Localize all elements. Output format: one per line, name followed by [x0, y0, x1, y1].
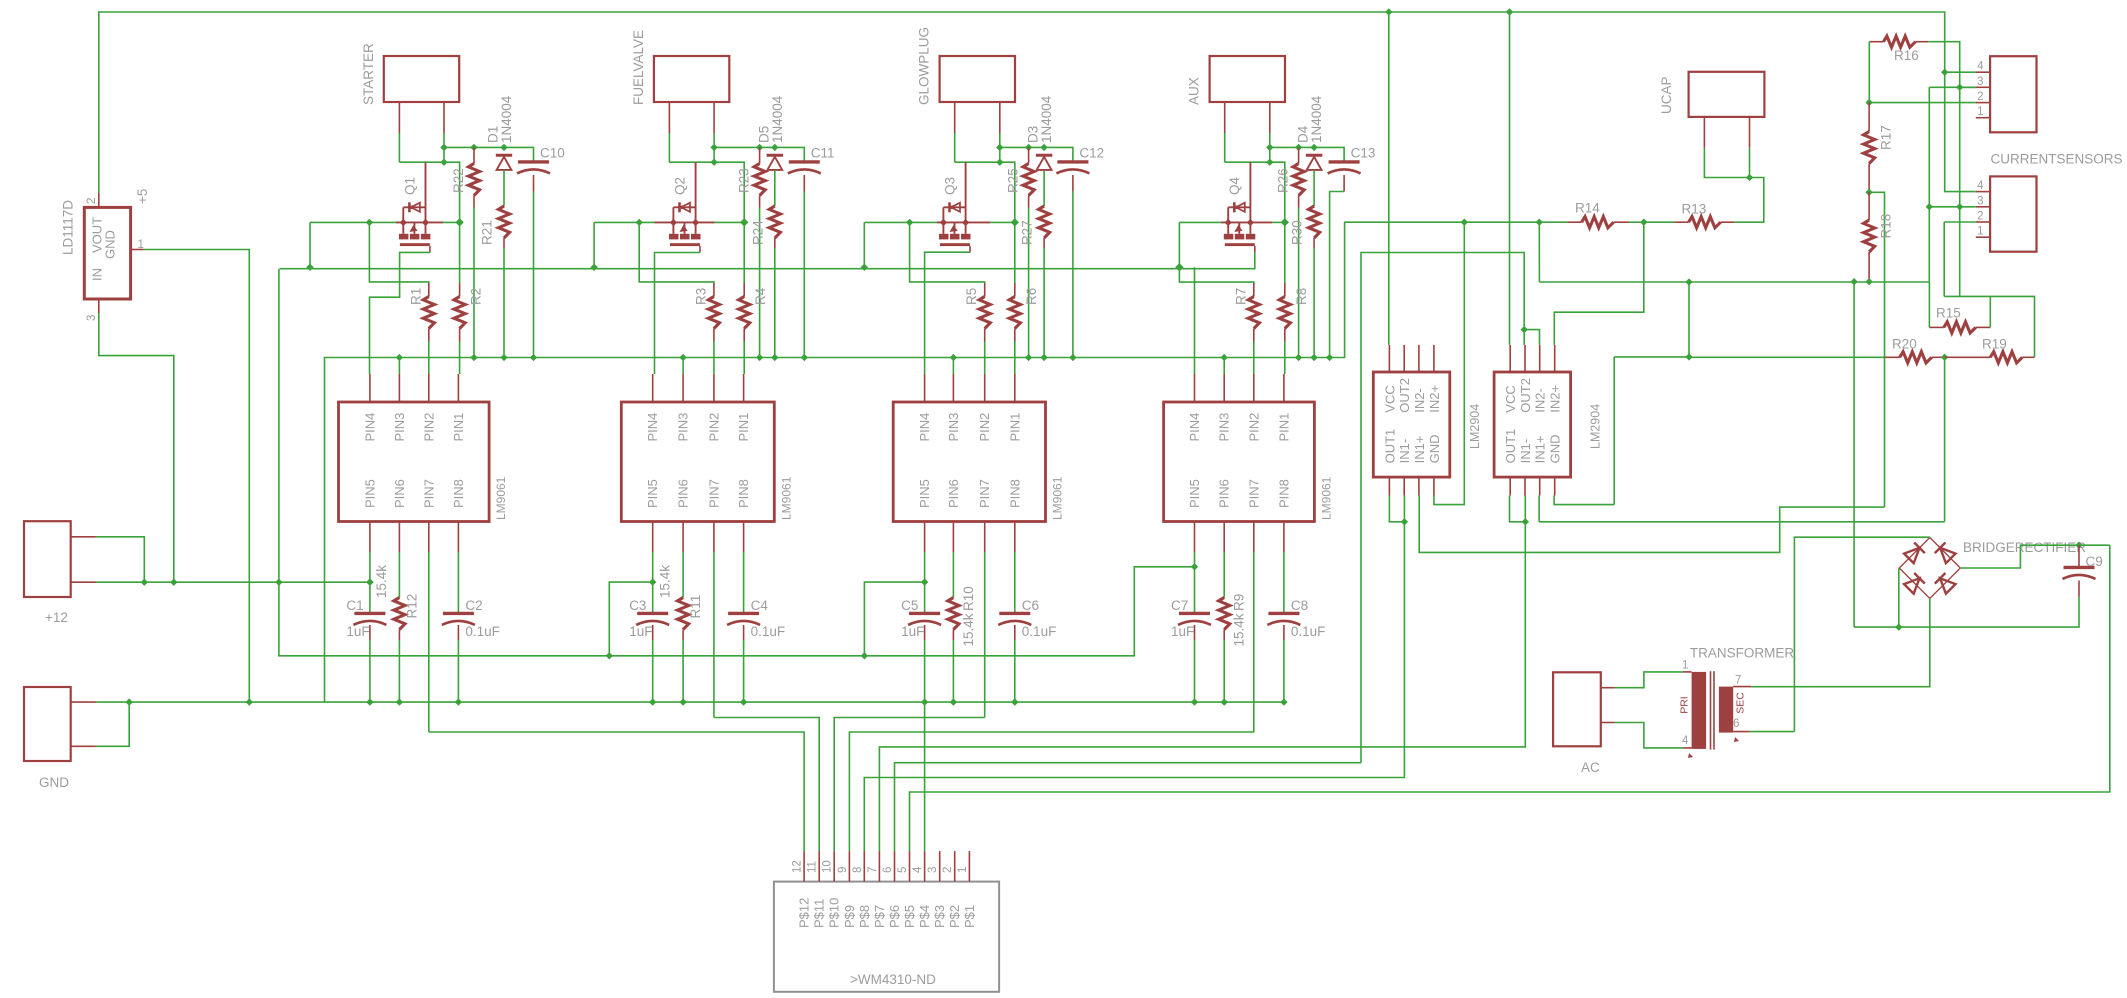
svg-text:1: 1	[1682, 660, 1688, 672]
pin stub U7 IN1+	[1539, 477, 1541, 495]
junction OUT2 U7	[1521, 326, 1528, 333]
wire: AUX gate drop	[1179, 222, 1253, 283]
wire: OUT2 to pin	[1523, 330, 1525, 345]
svg-text:15.4k: 15.4k	[1232, 613, 1247, 646]
capacitor C5 1uF	[909, 612, 940, 615]
svg-text:PIN5: PIN5	[1187, 479, 1202, 508]
svg-text:PIN8: PIN8	[451, 479, 466, 508]
svg-text:P$9: P$9	[842, 905, 857, 928]
junction 357 node	[1685, 353, 1692, 360]
junction PIN3 ch2 bus2	[679, 354, 686, 361]
wire: R15 right leg	[1989, 296, 1991, 327]
svg-text:R26: R26	[1276, 168, 1291, 193]
svg-text:1: 1	[1977, 106, 1983, 118]
svg-text:3: 3	[1977, 195, 1983, 207]
wire: R13 to UCAP	[1734, 178, 1764, 223]
svg-text:PIN8: PIN8	[1007, 479, 1022, 508]
svg-text:15.4k: 15.4k	[658, 565, 673, 598]
pin stub R19 right	[2022, 356, 2034, 358]
pin stub U6 OUT2	[1403, 345, 1405, 372]
junction STARTER bus1	[306, 264, 313, 271]
wire: C9 return	[1854, 597, 2079, 627]
junction C7 gnd	[1191, 698, 1198, 705]
svg-text:R11: R11	[688, 595, 703, 619]
svg-text:8: 8	[852, 867, 864, 873]
wire: U7 OUT1 loop	[1510, 496, 1526, 522]
svg-text:PIN7: PIN7	[706, 479, 721, 508]
junction GLOWPLUG Rtop	[1025, 144, 1032, 151]
wire: STARTER gate drop to bus1	[309, 222, 311, 267]
svg-text:GND: GND	[1427, 435, 1442, 464]
resistor R5	[979, 297, 990, 329]
wire: AC pin2 to PRI4	[1615, 723, 1683, 748]
pin stub T1 pin7	[1733, 686, 1751, 688]
svg-text:P$11: P$11	[812, 899, 827, 928]
pin stub U7 VCC	[1509, 345, 1511, 372]
pin stub R3 bottom	[713, 329, 715, 342]
connector FUELVALVE	[654, 56, 729, 102]
wire: P6 line to OUT2 net	[895, 763, 1362, 851]
pin stub R27 bottom	[1043, 238, 1045, 248]
wire: D4 to R30	[1313, 170, 1315, 206]
junction R30 bus2	[1310, 354, 1317, 361]
junction +5 rail / U1 VCC	[1385, 8, 1392, 15]
wire: +5 to sensor1 pin4	[1945, 42, 1976, 72]
pin stub R18 top	[1868, 192, 1870, 220]
svg-text:PIN1: PIN1	[1007, 413, 1022, 442]
wire: P5 line to C9 plus	[910, 545, 2110, 851]
wire: R8 to PIN1	[1284, 342, 1286, 375]
junction R23 bus2	[756, 354, 763, 361]
wire: sensor1 pin4 down to sensor2 pin4	[1945, 72, 1976, 191]
wire: sensor2 pin2 down	[1944, 221, 1976, 223]
svg-text:PIN8: PIN8	[736, 479, 751, 508]
svg-text:+12: +12	[45, 610, 68, 625]
transistor Q4	[1228, 206, 1250, 208]
svg-text:PIN7: PIN7	[421, 479, 436, 508]
pin stub IC2 PIN4	[652, 374, 654, 402]
svg-text:R17: R17	[1879, 125, 1894, 150]
resistor R12 15.4k	[394, 598, 405, 630]
wire: AUX gate rail right	[1272, 221, 1285, 223]
wire: STARTER top node 147	[444, 147, 534, 162]
connector STARTER	[384, 56, 459, 102]
wire: R12 to gnd	[398, 640, 400, 702]
pin stub U7 IN2-	[1539, 345, 1541, 372]
svg-text:C10: C10	[540, 146, 565, 161]
junction UCAP	[1746, 174, 1753, 181]
junction bridge- on C9 return	[1895, 623, 1902, 630]
svg-text:PIN6: PIN6	[1217, 479, 1232, 508]
wire: bridge bottom to SEC7	[1751, 599, 1930, 687]
wire: PIN8 ch4	[1283, 552, 1285, 612]
connector GLOWPLUG	[940, 56, 1015, 102]
junction GLOWPLUG diode top	[1040, 144, 1047, 151]
wire: R11 to gnd	[682, 640, 684, 702]
transformer T1 PRI winding	[1692, 672, 1707, 749]
wire: GLOWPLUG node 162	[955, 162, 1015, 222]
resistor R26	[1293, 164, 1304, 196]
junction riser ch3	[861, 652, 868, 659]
svg-text:PIN3: PIN3	[392, 413, 407, 442]
resistor R4	[739, 297, 750, 329]
svg-text:Q1: Q1	[402, 177, 417, 195]
svg-text:1uF: 1uF	[346, 624, 369, 639]
wire: FUELVALVE top node 147	[714, 147, 804, 162]
svg-text:R6: R6	[1024, 288, 1039, 305]
pin stub sensor1 pin3	[1976, 86, 1990, 88]
svg-text:IN1-: IN1-	[1518, 439, 1533, 464]
op-amp U1 LM9061	[339, 402, 490, 522]
svg-text:IN1-: IN1-	[1397, 439, 1412, 464]
svg-text:Q2: Q2	[672, 177, 687, 195]
svg-text:C11: C11	[811, 146, 835, 161]
connector CURRENTSENSOR 1	[1990, 56, 2036, 132]
resistor R16	[1884, 36, 1916, 47]
svg-text:PIN4: PIN4	[1187, 413, 1202, 442]
junction C4 gnd	[740, 698, 747, 705]
junction U7 OUT1/IN1-	[1522, 518, 1529, 525]
svg-text:PIN5: PIN5	[362, 479, 377, 508]
wire: Q3 source to PIN4	[925, 252, 970, 374]
wire: R14-R13 link	[1629, 221, 1644, 223]
pin stub IC1 PIN1	[457, 374, 459, 402]
junction +12 c	[275, 579, 282, 586]
transistor Q1	[403, 206, 425, 208]
wire: C11 to bus2	[803, 192, 805, 358]
wire: U6 VCC from +5	[1388, 12, 1390, 345]
pin stub GLOWPLUG right	[999, 102, 1001, 133]
svg-text:0.1uF: 0.1uF	[751, 624, 786, 639]
wire: FUELVALVE node 162	[669, 162, 744, 222]
svg-text:IN2+: IN2+	[1427, 385, 1442, 413]
pin stub IC4 PIN2	[1253, 374, 1255, 402]
wire: GLOWPLUG gate rail	[864, 221, 937, 223]
voltage regulator LD1117D body	[84, 207, 130, 299]
pin stub IC2 PIN1	[743, 374, 745, 402]
pin stub C13 bottom	[1343, 175, 1345, 192]
wire: bus2 to PIN3 ch4	[1223, 358, 1225, 375]
pin stub U6 IN1-	[1403, 477, 1405, 495]
junction STARTER Rtop	[470, 144, 477, 151]
svg-text:LM9061: LM9061	[494, 476, 508, 520]
wire: R15 left leg	[1928, 282, 1930, 327]
svg-text:1uF: 1uF	[1171, 624, 1194, 639]
wire: R4 to PIN1	[743, 342, 745, 375]
junction GLOWPLUG bus1	[861, 264, 868, 271]
pin stub C5 bottom	[924, 625, 926, 640]
pin stub IC2 bottom 7	[713, 522, 715, 553]
pin stub STARTER right	[443, 102, 445, 133]
svg-text:Q3: Q3	[942, 177, 957, 195]
connector AC	[1553, 672, 1601, 746]
svg-text:3: 3	[927, 867, 939, 873]
pin stub IC3 PIN4	[924, 374, 926, 402]
wire: FUELVALVE gate rail red	[655, 221, 715, 223]
svg-text:10: 10	[822, 860, 834, 873]
wire: bus2 to PIN3 ch1	[398, 358, 400, 375]
pin stub sensor1 pin4	[1976, 71, 1990, 73]
wire: sensor2 pin2 drop	[1943, 222, 1945, 296]
resistor R19	[1990, 352, 2022, 363]
resistor R27	[1039, 206, 1050, 238]
pin stub R21 bottom	[503, 238, 505, 248]
pin stub J1 pin 12	[803, 851, 805, 882]
junction riser ch2	[606, 652, 613, 659]
resistor R17	[1864, 132, 1875, 164]
wire: ground bus	[96, 701, 1284, 703]
pin stub UCAP right	[1749, 117, 1751, 148]
junction FUELVALVE Rtop	[756, 144, 763, 151]
wire: STARTER gate to R1	[369, 222, 428, 283]
svg-text:15.4k: 15.4k	[961, 613, 976, 646]
svg-text:7: 7	[1735, 675, 1741, 687]
wire: +12 pin1 loop	[96, 537, 144, 582]
svg-text:P$1: P$1	[962, 905, 977, 928]
wire: +12 feed	[96, 581, 370, 583]
svg-text:+5: +5	[135, 189, 150, 204]
wire: FUELVALVE right pin down	[713, 133, 715, 147]
wire: R6 to PIN1	[1014, 342, 1016, 375]
svg-text:PIN2: PIN2	[706, 413, 721, 442]
svg-text:2: 2	[1977, 211, 1983, 223]
wire: D5 to R24	[774, 170, 776, 206]
junction sensor2 pin3 a	[1926, 203, 1933, 210]
resistor R24	[769, 206, 780, 238]
pin stub GLOWPLUG left	[954, 102, 956, 133]
wire: AUX link 147-162	[1269, 147, 1271, 162]
pin stub J1 pin 7	[878, 851, 880, 882]
pin stub R3 top	[713, 283, 715, 297]
pin stub J1 pin 6	[894, 851, 896, 882]
junction U6 OUT1/IN1-	[1401, 518, 1408, 525]
junction GND / LD	[246, 698, 253, 705]
capacitor C13	[1329, 160, 1360, 163]
pin stub R5 top	[984, 283, 986, 297]
pin stub J1 pin 11	[818, 851, 820, 882]
svg-text:LM2904: LM2904	[1468, 404, 1482, 449]
pin stub IC4 PIN3	[1223, 374, 1225, 402]
pin stub T1 pin1	[1683, 671, 1692, 673]
pin stub +12 pin2	[71, 581, 96, 583]
svg-text:11: 11	[807, 861, 819, 873]
svg-text:R5: R5	[964, 288, 979, 305]
op-amp U6 LM2904	[1373, 372, 1450, 477]
pin stub R26 top	[1298, 147, 1300, 163]
svg-text:LM9061: LM9061	[779, 476, 793, 520]
svg-text:P$12: P$12	[797, 898, 812, 928]
pin stub IC3 bottom 7	[984, 522, 986, 553]
svg-text:C1: C1	[346, 598, 363, 613]
svg-text:IN2+: IN2+	[1548, 385, 1563, 413]
resistor R13	[1689, 217, 1721, 228]
wire: STARTER left pin down	[398, 133, 400, 162]
pin stub AC pin2	[1601, 722, 1615, 724]
junction R10 gnd	[950, 698, 957, 705]
junction sensor1 pin3	[1956, 84, 1963, 91]
wire: LD IN from +12	[99, 313, 174, 582]
capacitor C2 0.1uF	[443, 612, 474, 615]
svg-text:LM2904: LM2904	[1589, 404, 1603, 449]
pin stub IC1 PIN4	[369, 374, 371, 402]
wire: PIN7 ch3 to P10	[834, 718, 985, 852]
pin stub R13 left	[1674, 221, 1688, 223]
svg-text:PIN6: PIN6	[392, 479, 407, 508]
pin stub IC4 PIN4	[1194, 374, 1196, 402]
resistor R21	[498, 206, 509, 238]
junction PIN5 ch3 +12	[921, 578, 928, 585]
svg-text:PIN5: PIN5	[917, 479, 932, 508]
wire: AUX left pin down	[1224, 133, 1226, 162]
pin stub IC4 PIN1	[1283, 374, 1285, 402]
svg-text:GLOWPLUG: GLOWPLUG	[917, 27, 932, 105]
pin stub U6 VCC	[1388, 345, 1390, 372]
op-amp U2 LM9061	[621, 402, 774, 522]
pin stub U6 OUT1	[1388, 477, 1390, 495]
svg-text:1N4004: 1N4004	[770, 95, 785, 143]
pin stub C2 bottom	[457, 625, 459, 640]
pin stub C3 bottom	[652, 625, 654, 640]
wire: GND pin2 loop	[96, 702, 129, 746]
resistor R23	[754, 164, 765, 196]
pin stub R4 bottom	[743, 329, 745, 342]
pin stub R2 top	[459, 283, 461, 297]
svg-text:R21: R21	[480, 220, 495, 245]
pin stub R16 right	[1916, 41, 1929, 43]
svg-text:PIN8: PIN8	[1276, 479, 1291, 508]
wire: PIN5 ch3	[924, 552, 926, 612]
svg-text:R4: R4	[753, 287, 768, 305]
svg-text:0.1uF: 0.1uF	[1022, 624, 1057, 639]
wire: 296 crossbar	[1944, 296, 2034, 357]
junction GND loop	[126, 698, 133, 705]
wire: +5 top rail	[99, 12, 1945, 193]
capacitor C3 1uF	[637, 612, 668, 615]
pin stub R15 right	[1976, 326, 1991, 328]
pin stub R6 bottom	[1014, 329, 1016, 342]
wire: P4 riser from gnd	[924, 702, 926, 851]
pin stub IC3 bottom 5	[924, 522, 926, 553]
svg-text:R7: R7	[1233, 288, 1248, 305]
svg-text:R18: R18	[1879, 214, 1894, 239]
svg-text:SEC: SEC	[1735, 692, 1747, 714]
wire: PIN6 ch2	[682, 552, 684, 598]
connector +12	[24, 521, 71, 597]
pin stub IC2 bottom 5	[652, 522, 654, 553]
wire: AUX gate rail	[1179, 221, 1221, 223]
resistor R14	[1582, 217, 1614, 228]
svg-text:0.1uF: 0.1uF	[1291, 624, 1326, 639]
pin stub R7 top	[1253, 283, 1255, 297]
junction C9 plus	[2075, 542, 2082, 549]
wire: diamond to R8	[1284, 222, 1286, 283]
transistor Q2	[673, 206, 695, 208]
svg-text:IN1+: IN1+	[1412, 436, 1427, 464]
pin stub U6 IN1+	[1418, 477, 1420, 495]
svg-text:PIN7: PIN7	[1246, 479, 1261, 508]
svg-text:6: 6	[882, 867, 894, 873]
svg-text:IN: IN	[90, 268, 105, 281]
wire: AUX top node 147	[1270, 147, 1344, 162]
junction sensor1 pin4	[1941, 69, 1948, 76]
wire: GLOWPLUG gate to R5	[910, 222, 985, 283]
capacitor C9	[2064, 566, 2095, 569]
resistor R20	[1900, 352, 1932, 363]
svg-text:GND: GND	[39, 775, 69, 790]
wire: descend to C9 return	[1853, 282, 1855, 627]
wire: R26 to bus2	[1298, 208, 1300, 358]
pin stub +12 pin1	[71, 536, 96, 538]
wire: UCAP left pin	[1704, 148, 1749, 178]
pin stub R22 bottom	[473, 196, 475, 208]
pin stub R26 bottom	[1298, 196, 1300, 208]
wire: UCAP chain to IN2+	[1554, 222, 1644, 345]
pin stub C9 bottom	[2078, 581, 2080, 597]
junction STARTER gate tap	[366, 219, 373, 226]
junction AUX bus1 diamond	[1175, 263, 1183, 271]
svg-text:C13: C13	[1351, 146, 1376, 161]
junction FUELVALVE diamond	[740, 218, 748, 226]
pin stub C4 bottom	[743, 625, 745, 640]
svg-text:0.1uF: 0.1uF	[465, 624, 500, 639]
svg-text:P$3: P$3	[932, 905, 947, 928]
pin stub IC3 bottom 8	[1014, 522, 1016, 553]
svg-text:R19: R19	[1982, 337, 2007, 352]
wire: pin3 left drop	[1928, 87, 1930, 281]
wire: PIN7 ch2 drop	[713, 552, 715, 718]
junction AUX diamond	[1281, 218, 1289, 226]
pin stub sensor1 pin2	[1976, 102, 1990, 104]
pin stub R15 left	[1929, 326, 1943, 328]
pin stub IC4 bottom 7	[1253, 522, 1255, 553]
wire: FUELVALVE left pin down	[668, 133, 670, 162]
pin stub C7 bottom	[1194, 625, 1196, 640]
capacitor C7 1uF	[1179, 612, 1210, 615]
wire: PIN8 ch2	[743, 552, 745, 612]
pin stub C11 bottom	[803, 175, 805, 192]
pin stub R14 left	[1567, 221, 1581, 223]
svg-text:R1: R1	[408, 288, 423, 305]
wire: R16 left down	[1868, 42, 1870, 103]
wire: C13 to bus2 jog	[1330, 192, 1345, 358]
svg-text:STARTER: STARTER	[361, 43, 376, 105]
pin stub U7 GND	[1554, 477, 1556, 495]
wire: U7 VCC from +5	[1509, 12, 1511, 345]
wire: sensor1 pin2	[1869, 102, 1976, 104]
pin stub IC2 bottom 6	[682, 522, 684, 553]
svg-text:15.4k: 15.4k	[374, 565, 389, 598]
diode D1 1N4004	[496, 154, 512, 157]
pin stub AUX right	[1269, 102, 1271, 133]
wire: U7 IN1- down	[1524, 496, 1526, 522]
junction PIN5 ch2 +12	[649, 578, 656, 585]
wire: R27 to bus2	[1043, 248, 1045, 358]
resistor R8	[1279, 297, 1290, 329]
capacitor C10	[518, 160, 549, 163]
wire: 282 down to 357	[1688, 282, 1690, 357]
pin stub C9 top	[2078, 545, 2080, 567]
wire: AUX gate rail red	[1221, 221, 1272, 223]
svg-text:PIN4: PIN4	[917, 413, 932, 442]
pin stub C12 bottom	[1072, 175, 1074, 192]
wire: PIN7 ch1 drop	[428, 552, 430, 732]
svg-text:4: 4	[1977, 61, 1984, 73]
junction C13 bus2	[1326, 354, 1333, 361]
pin stub LD1117D VOUT	[98, 193, 100, 207]
wire: +12 drop to lower rail	[278, 269, 280, 583]
svg-text:OUT2: OUT2	[1397, 378, 1412, 413]
wire: P8 line to U6 IN1-	[864, 522, 1404, 851]
